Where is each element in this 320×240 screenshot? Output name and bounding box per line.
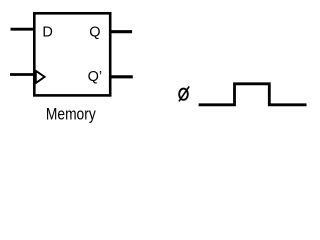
clock edge-trigger triangle [36,71,45,83]
svg-text:Q’: Q’ [88,69,103,85]
svg-text:Q: Q [89,24,100,40]
clock phi label [179,86,189,101]
wire: Q output [110,30,132,33]
wire: D input [11,28,36,31]
svg-text:D: D [42,25,52,41]
clock waveform [199,84,307,105]
wire: clock input [10,73,35,76]
wire: Q' output [110,75,133,78]
flip-flop U1 body [34,13,110,95]
svg-text:Memory: Memory [46,105,96,124]
